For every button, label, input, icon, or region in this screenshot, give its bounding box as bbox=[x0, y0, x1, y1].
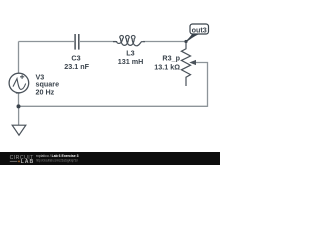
wire bottom horizontal bbox=[19, 105, 208, 107]
capacitor C3 bbox=[75, 34, 79, 50]
wire source bottom bbox=[18, 93, 20, 107]
potentiometer R3_p bbox=[181, 42, 196, 87]
wire top horizontal left bbox=[19, 41, 75, 43]
svg-text:out3: out3 bbox=[192, 25, 207, 34]
wire right vertical bbox=[196, 63, 208, 107]
wire ground stem bbox=[18, 106, 20, 125]
svg-text:R3_p: R3_p bbox=[162, 53, 180, 62]
node junction out3 bbox=[184, 40, 187, 43]
wiper arrow bbox=[189, 60, 196, 65]
out3 flag box bbox=[190, 24, 209, 34]
junction dot bottom-left bbox=[17, 104, 21, 108]
svg-text:LAB: LAB bbox=[21, 159, 35, 165]
ground bbox=[12, 125, 26, 135]
wire C3 to L3 bbox=[80, 41, 116, 43]
out3 flag tail bbox=[186, 34, 199, 43]
svg-text:13.1 kΩ: 13.1 kΩ bbox=[154, 63, 180, 72]
inductor L3 bbox=[113, 35, 145, 45]
logo CIRCUIT LAB bbox=[10, 155, 35, 165]
wire top-left vertical bbox=[18, 42, 20, 74]
svg-text:131 mH: 131 mH bbox=[118, 57, 144, 66]
svg-text:rxplatico / Lab 6 Exercise 3: rxplatico / Lab 6 Exercise 3 bbox=[36, 154, 79, 158]
wire L3 to node bbox=[143, 41, 186, 43]
svg-text:http://circuitlab.com/c23a2sg4: http://circuitlab.com/c23a2sg43q73d bbox=[36, 159, 78, 163]
voltage source V3 bbox=[9, 73, 29, 93]
watermark bar bbox=[0, 152, 220, 165]
svg-text:23.1 nF: 23.1 nF bbox=[64, 62, 89, 71]
svg-text:20 Hz: 20 Hz bbox=[36, 88, 55, 97]
